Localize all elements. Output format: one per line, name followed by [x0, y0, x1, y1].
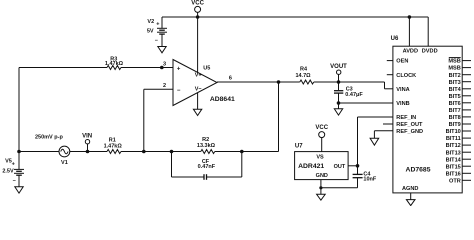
svg-text:BIT15: BIT15 — [446, 164, 461, 170]
junction CF right — [240, 150, 244, 154]
wire opamp V- to ground — [197, 93, 199, 110]
svg-text:DVDD: DVDD — [422, 48, 438, 54]
wire bottom rail — [19, 151, 59, 153]
junction CF left — [170, 150, 174, 154]
pin BIT6 — [449, 101, 471, 107]
capacitor CF branch — [172, 152, 242, 180]
svg-text:AGND: AGND — [402, 186, 418, 192]
pin BIT10 — [446, 129, 471, 135]
svg-text:OEN: OEN — [396, 59, 408, 65]
node VCC terminal U7 — [315, 125, 328, 151]
junction on rail at AVDD — [408, 15, 412, 19]
svg-text:3: 3 — [163, 62, 166, 68]
wire AVDD drop — [408, 17, 410, 46]
svg-text:BIT9: BIT9 — [449, 122, 461, 128]
wire pin2 vertical — [143, 89, 145, 151]
ground AGND — [406, 200, 415, 206]
wire pin3 net — [19, 67, 107, 69]
svg-text:OUT: OUT — [334, 164, 346, 170]
battery V2 5V — [147, 17, 167, 47]
junction VOUT — [337, 80, 341, 84]
wire GND to C4 bottom — [321, 187, 358, 189]
wire pin2 net — [144, 88, 173, 90]
svg-text:U5: U5 — [203, 65, 210, 71]
pin MSB (overline) — [448, 58, 471, 65]
pin BIT7 — [449, 108, 471, 114]
wire AGND pin — [410, 193, 412, 200]
svg-text:VS: VS — [316, 155, 324, 161]
pin OEN — [387, 59, 409, 65]
svg-text:R4: R4 — [300, 67, 308, 73]
svg-text:V+: V+ — [195, 72, 202, 78]
svg-text:V2: V2 — [147, 19, 154, 25]
svg-text:V1: V1 — [61, 160, 68, 166]
wire REF_IN vertical — [357, 117, 359, 166]
svg-text:REF_IN: REF_IN — [396, 115, 416, 121]
svg-text:+: + — [12, 162, 15, 168]
svg-text:14.7Ω: 14.7Ω — [295, 73, 311, 79]
resistor R2 — [197, 137, 216, 153]
junction GND — [319, 186, 322, 189]
pin BIT4 — [449, 87, 471, 93]
capacitor C4 — [353, 166, 377, 188]
pin BIT14 — [446, 157, 471, 163]
junction pin2 drop — [142, 150, 146, 154]
pin BIT11 — [446, 136, 471, 142]
svg-text:VOUT: VOUT — [330, 64, 347, 70]
svg-text:BIT6: BIT6 — [449, 101, 461, 107]
resistor R3 — [105, 56, 124, 69]
svg-text:BIT16: BIT16 — [446, 171, 461, 177]
pin BIT3 — [449, 80, 471, 86]
svg-text:BIT13: BIT13 — [446, 150, 461, 156]
svg-text:−: − — [155, 38, 158, 44]
ground under V5 — [15, 187, 23, 193]
ground under C3 — [334, 109, 342, 115]
svg-text:VCC: VCC — [191, 1, 204, 7]
battery V5 2.5V — [2, 152, 24, 187]
svg-text:U6: U6 — [391, 36, 399, 42]
wire VCC top rail — [162, 16, 428, 18]
wire OUT stub — [348, 165, 357, 167]
ground under U7 — [317, 194, 326, 200]
svg-text:AVDD: AVDD — [403, 48, 418, 54]
svg-text:BIT11: BIT11 — [446, 136, 461, 142]
svg-text:VINB: VINB — [396, 101, 409, 107]
junction V5 — [17, 150, 21, 154]
pin OTR — [449, 178, 471, 184]
ground under op-amp — [193, 109, 201, 115]
svg-text:AD7685: AD7685 — [406, 166, 431, 173]
svg-text:5V: 5V — [147, 29, 154, 35]
wire U7 GND pin — [320, 180, 322, 195]
svg-text:−: − — [13, 178, 16, 184]
wire VINA jog — [384, 82, 386, 89]
pin BIT5 — [449, 94, 471, 100]
svg-text:U7: U7 — [295, 144, 303, 150]
wire VINB net — [339, 102, 393, 104]
IC U6 AD7685 — [391, 36, 463, 193]
svg-text:GND: GND — [316, 173, 328, 179]
op-amp U5 AD8641 — [173, 60, 235, 106]
svg-text:−: − — [177, 88, 181, 94]
svg-text:BIT3: BIT3 — [449, 80, 461, 86]
pin CLOCK — [387, 73, 416, 79]
svg-text:AD8641: AD8641 — [210, 96, 235, 103]
svg-text:250mV p-p: 250mV p-p — [35, 134, 63, 140]
wire opamp V+ supply drop — [197, 17, 199, 73]
svg-text:MSB: MSB — [448, 66, 460, 72]
junction feedback/output — [277, 80, 281, 84]
svg-text:BIT10: BIT10 — [446, 129, 461, 135]
svg-text:VCC: VCC — [315, 125, 328, 131]
svg-text:BIT12: BIT12 — [446, 143, 461, 149]
capacitor C3 — [334, 82, 363, 109]
svg-text:CLOCK: CLOCK — [396, 73, 416, 79]
svg-text:VINA: VINA — [396, 87, 409, 93]
pin BIT15 — [446, 164, 471, 170]
svg-text:ADR421: ADR421 — [298, 163, 324, 170]
svg-text:BIT4: BIT4 — [449, 87, 462, 93]
svg-text:OTR: OTR — [449, 178, 461, 184]
node VOUT terminal — [330, 64, 347, 82]
svg-text:VIN: VIN — [82, 134, 92, 140]
svg-text:REF_GND: REF_GND — [396, 129, 423, 135]
ground under V2 — [158, 47, 166, 53]
pin BIT2 — [449, 73, 471, 79]
junction VIN — [86, 150, 90, 154]
node VCC terminal — [191, 1, 204, 17]
resistor R1 — [104, 138, 123, 154]
pin BIT13 — [446, 150, 471, 156]
svg-text:+: + — [177, 66, 181, 72]
svg-text:V−: V− — [195, 86, 202, 92]
pin REF_IN — [358, 115, 417, 121]
junction at pin3 — [160, 66, 164, 70]
svg-text:13.3kΩ: 13.3kΩ — [197, 143, 216, 149]
pin REF_GND — [374, 129, 423, 138]
wire output net — [217, 81, 300, 83]
svg-text:BIT8: BIT8 — [449, 115, 461, 121]
resistor R4 — [295, 67, 313, 84]
pin REF_OUT — [383, 122, 423, 128]
junction OUT/REF_IN/C4 — [356, 164, 360, 168]
node VIN terminal — [82, 134, 92, 152]
junction C3/VINB — [337, 101, 341, 105]
IC U7 ADR421 — [295, 144, 349, 180]
svg-text:1.47kΩ: 1.47kΩ — [105, 61, 124, 67]
pin BIT12 — [446, 143, 471, 149]
svg-text:BIT5: BIT5 — [449, 94, 461, 100]
wire feedback vertical — [278, 82, 280, 152]
svg-text:+: + — [156, 22, 159, 28]
svg-text:BIT14: BIT14 — [446, 157, 462, 163]
svg-text:BIT7: BIT7 — [449, 108, 461, 114]
junction on rail at opamp V+ — [196, 15, 200, 19]
svg-text:2: 2 — [163, 83, 166, 89]
svg-text:1.47kΩ: 1.47kΩ — [104, 144, 123, 150]
source V1 250mV p-p — [35, 134, 70, 166]
svg-text:0.47nF: 0.47nF — [198, 164, 216, 170]
svg-text:BIT2: BIT2 — [449, 73, 461, 79]
svg-text:0.47μF: 0.47μF — [345, 92, 363, 98]
pin BIT8 — [449, 115, 471, 121]
svg-text:6: 6 — [229, 76, 232, 82]
svg-text:10nF: 10nF — [363, 176, 376, 182]
pin BIT9 — [449, 122, 471, 128]
wire DVDD drop — [427, 17, 429, 46]
pin MSB — [448, 66, 471, 72]
ground at REF_GND — [370, 138, 379, 145]
svg-text:REF_OUT: REF_OUT — [396, 122, 423, 128]
svg-text:2.5V: 2.5V — [2, 168, 14, 174]
svg-text:MSB: MSB — [448, 59, 460, 65]
pin BIT16 — [446, 171, 471, 177]
wire left vertical — [18, 68, 20, 152]
